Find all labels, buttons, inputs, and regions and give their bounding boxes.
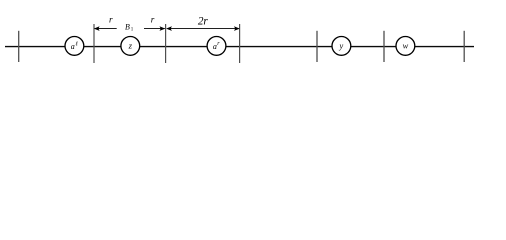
extension line right edge of ball B1	[165, 24, 167, 63]
svg-text:B: B	[125, 23, 130, 32]
tick mark boundary right of y interval start	[316, 31, 318, 62]
extension line right edge of 2r span	[239, 24, 241, 63]
tick mark 1 (left end interval boundary)	[18, 31, 20, 62]
node z circle	[121, 37, 140, 56]
node a^r circle	[207, 37, 226, 56]
tick mark right end	[463, 31, 465, 62]
tick mark between y and w	[383, 31, 385, 62]
svg-text:1: 1	[131, 27, 134, 32]
dimension arrow 2r double headed	[166, 26, 240, 31]
dimension arrow r (left half), head pointing left	[94, 26, 117, 31]
svg-text:r: r	[109, 15, 113, 25]
node y circle	[332, 37, 351, 56]
svg-text:a: a	[71, 42, 75, 51]
svg-text:y: y	[339, 42, 344, 51]
svg-text:z: z	[128, 41, 133, 51]
node a^l circle	[65, 37, 84, 56]
node w circle	[396, 37, 415, 56]
svg-text:w: w	[403, 42, 409, 51]
dimension arrow r (right half), head pointing right	[144, 26, 165, 31]
svg-text:r: r	[151, 15, 155, 25]
svg-text:2r: 2r	[198, 16, 209, 28]
main number line	[5, 46, 474, 48]
extension line left edge of ball B1	[93, 24, 95, 63]
